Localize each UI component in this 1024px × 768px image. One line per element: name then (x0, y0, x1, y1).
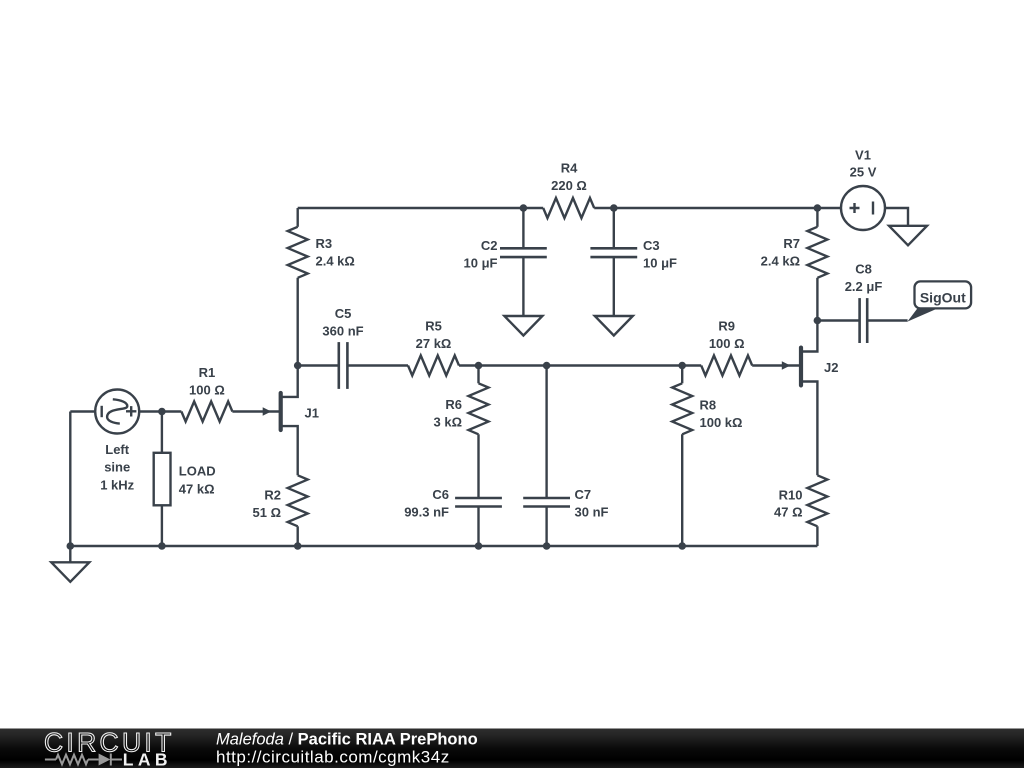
svg-text:2.2 μF: 2.2 μF (845, 279, 883, 294)
node bottom R8 (678, 542, 686, 550)
svg-text:J1: J1 (305, 406, 319, 421)
ground (V1) (889, 226, 927, 246)
svg-text:10 μF: 10 μF (643, 256, 677, 271)
node mid rail R6 (475, 362, 483, 370)
ground (C2) (504, 316, 542, 336)
svg-text:R4: R4 (561, 161, 578, 176)
svg-text:1 kHz: 1 kHz (100, 477, 134, 492)
svg-text:100 kΩ: 100 kΩ (700, 415, 743, 430)
wire V2 to R1 (139, 410, 181, 412)
node source/LOAD (158, 408, 166, 416)
footer bar (0, 729, 1024, 768)
node bottom R2 (294, 542, 302, 550)
ground (left) (69, 546, 71, 562)
V2 plus sign (126, 406, 136, 416)
node mid rail C7 (543, 362, 551, 370)
resistor R8 (681, 366, 683, 384)
svg-text:C5: C5 (335, 306, 352, 321)
J2 gate arrow (782, 361, 791, 369)
svg-text:2.4 kΩ: 2.4 kΩ (761, 254, 800, 269)
voltage source V1 (841, 186, 885, 230)
svg-text:R9: R9 (718, 319, 735, 334)
resistor R2 (288, 475, 308, 526)
node bottom C6 (475, 542, 483, 550)
svg-text:25 V: 25 V (850, 165, 877, 180)
svg-text:R10: R10 (779, 488, 803, 503)
svg-text:2.4 kΩ: 2.4 kΩ (316, 254, 355, 269)
node mid rail R8/R9 (678, 362, 686, 370)
svg-text:Left: Left (105, 442, 130, 457)
svg-text:V1: V1 (855, 148, 871, 163)
resistor R5 (408, 356, 459, 376)
capacitor C3 (613, 208, 615, 248)
svg-text:C7: C7 (575, 487, 592, 502)
svg-text:10 μF: 10 μF (464, 256, 498, 271)
svg-text:R1: R1 (199, 365, 216, 380)
wire mid rail (459, 364, 701, 366)
svg-text:99.3 nF: 99.3 nF (404, 505, 449, 520)
svg-text:R8: R8 (700, 398, 717, 413)
svg-text:Malefoda / Pacific RIAA PrePho: Malefoda / Pacific RIAA PrePhono (216, 731, 478, 749)
svg-text:47 Ω: 47 Ω (774, 505, 803, 520)
wire R9 to J2 gate (752, 364, 801, 366)
capacitor C6 (455, 497, 502, 500)
svg-text:LOAD: LOAD (179, 464, 216, 479)
resistor R7 (816, 208, 818, 227)
wire left vertical (69, 412, 71, 547)
wire V2 left (70, 410, 95, 412)
node top rail V1/R7 (814, 204, 822, 212)
V1 minus bar (872, 202, 874, 215)
svg-text:C8: C8 (855, 262, 872, 277)
wire bottom rail (70, 545, 817, 547)
capacitor C8 (817, 319, 859, 321)
svg-text:sine: sine (104, 460, 130, 475)
V2 sine wave (107, 399, 127, 423)
node bottom ground (67, 542, 75, 550)
wire top rail right segment (594, 207, 841, 209)
svg-text:http://circuitlab.com/cgmk34z: http://circuitlab.com/cgmk34z (216, 748, 450, 767)
svg-text:J2: J2 (824, 360, 838, 375)
capacitor C5 (298, 364, 339, 366)
resistor R1 (181, 402, 232, 422)
svg-text:R7: R7 (783, 236, 800, 251)
logo resistor-diode glyph (45, 754, 122, 766)
svg-text:100 Ω: 100 Ω (189, 383, 225, 398)
svg-text:27 kΩ: 27 kΩ (416, 336, 452, 351)
svg-text:100 Ω: 100 Ω (709, 336, 745, 351)
ground (C3) (595, 316, 633, 336)
svg-text:220 Ω: 220 Ω (551, 178, 587, 193)
J1 gate arrow (263, 407, 272, 415)
svg-text:R2: R2 (264, 488, 281, 503)
svg-text:30 nF: 30 nF (575, 505, 609, 520)
svg-text:C2: C2 (481, 238, 498, 253)
wire R1 to J1 gate (232, 410, 280, 412)
node bottom C7 (543, 542, 551, 550)
resistor LOAD (161, 412, 163, 453)
capacitor C7 (545, 366, 547, 499)
resistor R10 (807, 475, 827, 526)
svg-text:R3: R3 (316, 236, 333, 251)
svg-text:360 nF: 360 nF (322, 324, 363, 339)
node R7/C8/J2 drain (814, 317, 822, 325)
svg-text:LAB: LAB (123, 749, 172, 768)
node bottom LOAD (158, 542, 166, 550)
svg-text:47 kΩ: 47 kΩ (179, 482, 215, 497)
svg-text:C3: C3 (643, 238, 660, 253)
voltage source V2 Left sine (95, 390, 139, 434)
flag SigOut (907, 281, 971, 321)
transistor J1 (279, 393, 283, 430)
node top rail C2 (520, 204, 528, 212)
node top rail C3 (610, 204, 618, 212)
svg-text:R6: R6 (445, 397, 462, 412)
V1 plus sign (850, 203, 860, 213)
V2 minus bar (100, 406, 102, 417)
capacitor C2 (522, 208, 524, 248)
resistor R9 (701, 356, 752, 376)
resistor R6 (477, 366, 479, 384)
svg-text:51 Ω: 51 Ω (253, 505, 282, 520)
svg-text:R5: R5 (425, 319, 442, 334)
resistor R3 (297, 208, 299, 227)
resistor R4 (543, 198, 594, 218)
node mid rail R3/C5 (294, 362, 302, 370)
svg-text:C6: C6 (432, 487, 449, 502)
transistor J2 (799, 348, 803, 386)
wire top rail left segment (298, 207, 544, 209)
svg-text:SigOut: SigOut (920, 289, 966, 305)
svg-text:3 kΩ: 3 kΩ (434, 415, 463, 430)
wire V1 to ground (885, 208, 908, 226)
